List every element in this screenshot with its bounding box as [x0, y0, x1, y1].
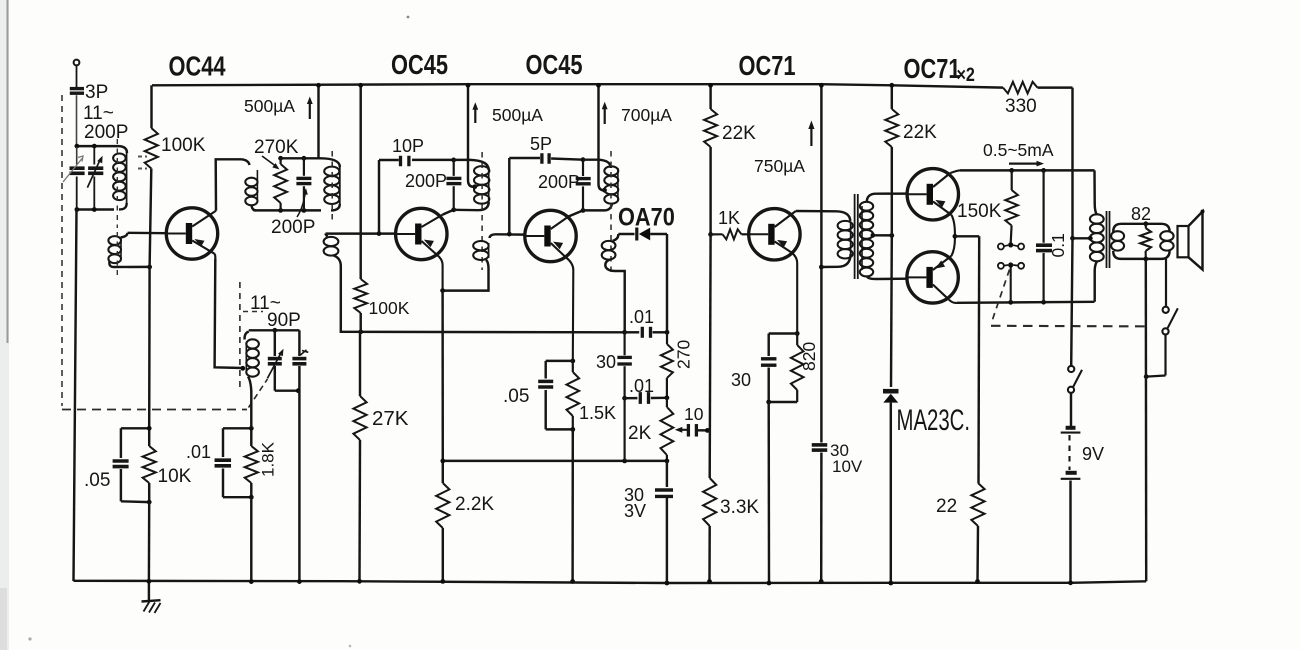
resistor R16 22 [971, 483, 984, 584]
capacitor C 30b [761, 334, 797, 403]
wire volume top to bus [623, 398, 625, 461]
inductor T3 secondary [602, 234, 625, 332]
svg-text:OA70: OA70 [618, 203, 675, 231]
wire switch gang link (dashed) [991, 270, 1150, 327]
transistor Q3 OC45 [525, 210, 576, 361]
capacitor C .01a [215, 428, 252, 497]
wire base Q2 from T1 [326, 231, 396, 236]
variable capacitor VC2 antenna [87, 147, 103, 209]
wire top supply rail [152, 84, 1003, 87]
label 22 [936, 496, 957, 517]
svg-text:200P: 200P [84, 122, 128, 143]
diode MA23C varistor [883, 235, 899, 585]
wire osc core (dashed) [239, 282, 241, 391]
label 330 [1005, 96, 1037, 117]
svg-text:200P: 200P [405, 171, 447, 191]
wire AVC bus [341, 266, 625, 334]
wire base Q6 lower [876, 277, 907, 280]
label 0.1 [1048, 233, 1068, 257]
label .01c [629, 376, 654, 396]
capacitor C .01b [622, 327, 669, 338]
label 200Pa [271, 188, 315, 238]
inductor T4 secondary [860, 194, 876, 279]
svg-text:11~: 11~ [83, 103, 114, 124]
resistor R12 1K [711, 229, 749, 239]
antenna terminal [74, 60, 80, 87]
label 82 [1131, 204, 1151, 224]
variable capacitor VC1 antenna [63, 147, 85, 209]
label 270K [254, 137, 299, 170]
label 9V [1082, 444, 1104, 464]
wire upper collector rail [960, 168, 1095, 173]
wire T3 B+ feed [596, 83, 607, 193]
label 5P [530, 134, 552, 154]
transformer T4 core [855, 194, 858, 279]
node coupling-bias junction [147, 265, 152, 270]
wire gang link (dashed) [62, 95, 268, 410]
wire T1 top [278, 156, 321, 161]
svg-text:×2: ×2 [957, 64, 976, 86]
variable capacitor VC3 osc [267, 330, 283, 390]
svg-text:3P: 3P [85, 82, 108, 103]
wire osc tank bottom [275, 388, 302, 584]
inductor T1 tank [321, 158, 340, 210]
svg-text:OC45: OC45 [391, 49, 448, 80]
svg-text:10P: 10P [392, 136, 424, 156]
resistor R5 100K [354, 83, 367, 332]
resistor R17 150K [1005, 170, 1018, 242]
label 150K [957, 201, 1002, 222]
switch S2 on-off [1068, 366, 1082, 426]
transformer T5 core [1107, 211, 1110, 268]
svg-text:700µA: 700µA [621, 105, 672, 125]
resistor R6 27K [353, 332, 366, 584]
resistor R18 330 [1003, 82, 1073, 94]
capacitor C 200Pa [296, 158, 311, 210]
switch S3 speaker [1144, 259, 1178, 379]
label 22K a [722, 123, 756, 144]
svg-text:22: 22 [936, 496, 957, 517]
svg-text:90P: 90P [267, 310, 301, 331]
resistor R10 1.5K [567, 361, 580, 584]
svg-text:0.5~5mA: 0.5~5mA [983, 140, 1054, 160]
wire battery feed [1070, 88, 1075, 366]
resistor R11 22K [704, 83, 717, 237]
svg-text:OC45: OC45 [526, 49, 583, 80]
resistor R7 2.2K [436, 291, 449, 584]
label OC44 [169, 51, 226, 82]
svg-text:200P: 200P [538, 172, 580, 192]
coupling coil L1b [108, 233, 149, 267]
label 10K [158, 466, 192, 487]
wire osc tank top [249, 328, 300, 333]
svg-text:150K: 150K [957, 201, 1002, 222]
svg-text:27K: 27K [372, 407, 409, 430]
svg-text:500µA: 500µA [244, 96, 295, 116]
wire antenna return [74, 210, 77, 582]
svg-text:3V: 3V [624, 501, 646, 521]
capacitor 3P [70, 89, 84, 144]
variable capacitor VC4 osc trimmer [292, 330, 308, 390]
wire rod core lower (dashed) [116, 232, 118, 275]
svg-text:30: 30 [731, 370, 751, 390]
svg-text:330: 330 [1005, 96, 1037, 117]
capacitor C 10 [688, 424, 709, 437]
wire Q2 collector junction [443, 207, 457, 214]
transistor Q6 OC71 lower [907, 236, 958, 303]
resistor R1 100K [145, 85, 158, 428]
label 11~ 90P [243, 293, 301, 331]
wire base Q3 [495, 232, 525, 237]
wire tuning gang top [75, 144, 120, 149]
wire B+ branch OC71 [819, 83, 824, 584]
label .05 [84, 470, 110, 491]
wire rod core (dashed) [116, 139, 118, 228]
capacitor C 200Pc [576, 157, 591, 210]
potentiometer R9 2K [661, 398, 690, 461]
svg-text:22K: 22K [903, 122, 937, 143]
svg-text:10K: 10K [158, 466, 192, 487]
svg-text:1.8K: 1.8K [259, 441, 278, 477]
resistor R8 270 [661, 332, 673, 398]
capacitor C 30a [617, 332, 632, 398]
switch S1 tone upper [998, 242, 1024, 249]
resistor R13 820 [791, 334, 804, 403]
label 11~200P [83, 103, 128, 143]
svg-text:82: 82 [1131, 204, 1151, 224]
wire speaker return [1145, 259, 1148, 581]
inductor T1 secondary [324, 234, 341, 266]
svg-text:820: 820 [799, 342, 819, 371]
label 820 [799, 342, 819, 371]
svg-text:270: 270 [674, 340, 694, 369]
svg-text:.05: .05 [84, 470, 110, 491]
svg-text:.05: .05 [503, 386, 529, 407]
wire Q4 collector to T4 [796, 210, 836, 213]
svg-text:OC44: OC44 [169, 51, 226, 82]
resistor R4 270K [274, 158, 287, 210]
label 200Pc [538, 172, 580, 192]
label .01a [186, 442, 211, 462]
label current 500uA b [472, 102, 543, 125]
svg-text:30: 30 [596, 352, 616, 372]
label 200Pb [405, 171, 447, 191]
label .01b [629, 307, 654, 327]
svg-text:100K: 100K [369, 298, 410, 318]
wire T1 bottom [254, 208, 322, 213]
inductor T2 primary [454, 160, 490, 210]
diode D1 OA70 [618, 228, 667, 333]
capacitor C 10P [379, 156, 454, 234]
wire Q1 emitter to osc tap [215, 259, 246, 371]
ferrite rod antenna coil L1 [113, 146, 127, 209]
resistor R19 82 [1140, 221, 1151, 261]
svg-text:1.5K: 1.5K [579, 403, 616, 423]
speaker LS1 [1174, 210, 1205, 270]
wire base Q1 [128, 232, 167, 235]
label 1.5K [579, 403, 616, 423]
resistor R15 22K [885, 83, 898, 236]
svg-text:22K: 22K [722, 123, 756, 144]
svg-text:750µA: 750µA [754, 156, 805, 176]
inductor T1 primary [242, 159, 258, 210]
inductor T5 secondary [1111, 224, 1174, 259]
label current 700uA [602, 102, 672, 125]
battery BT1 9V [1061, 428, 1081, 585]
svg-text:3.3K: 3.3K [720, 497, 759, 518]
svg-text:100K: 100K [161, 135, 206, 156]
svg-text:500µA: 500µA [492, 105, 543, 125]
label 1K [718, 208, 740, 228]
capacitor C 30 3V [655, 461, 673, 585]
label .05b [503, 386, 529, 407]
label 2.2K [455, 494, 494, 515]
resistor R2 10K [143, 426, 156, 584]
svg-text:270K: 270K [254, 137, 299, 158]
wire T5 centre tap [1073, 236, 1093, 241]
wire Q1 collector to T1 [216, 159, 242, 211]
label OC71 [739, 50, 796, 81]
capacitor C 200Pb [446, 158, 461, 210]
ground [142, 582, 161, 614]
label 100K R5 [369, 298, 410, 318]
wire T1 B+ feed [316, 83, 321, 158]
label 27K [372, 407, 409, 430]
label OC71 x2 [904, 53, 976, 85]
label 1.8K [259, 441, 278, 477]
resistor R14 3.3K [703, 234, 716, 583]
label current 500uA a [244, 96, 313, 119]
svg-text:10: 10 [684, 404, 704, 424]
wire T4 centre tap [871, 233, 895, 238]
svg-text:2.2K: 2.2K [455, 494, 494, 515]
inductor T4 primary [821, 211, 852, 267]
svg-text:MA23C.: MA23C. [897, 404, 970, 437]
label 30a [596, 352, 616, 372]
label MA23C [897, 404, 970, 437]
inductor T3 primary [583, 160, 618, 211]
inductor T5 primary [1090, 170, 1104, 301]
wire lower collector rail [957, 300, 1095, 305]
transistor Q5 OC71 upper [907, 169, 960, 237]
inductor T2 secondary [440, 234, 495, 293]
wire T2 B+ feed [466, 83, 478, 189]
wire base Q5 upper [876, 192, 907, 195]
label OC45 a [391, 49, 448, 80]
svg-text:OC71: OC71 [904, 53, 961, 84]
wire bottom ground rail [74, 581, 1147, 583]
transistor Q2 OC45 [396, 208, 447, 290]
resistor R3 1.8K [245, 426, 258, 584]
wire common emitters to 22 [953, 234, 980, 483]
node Q4 emitter junction [795, 331, 800, 336]
label 10P [392, 136, 424, 156]
capacitor C .05 [113, 428, 150, 502]
capacitor C .01c [622, 392, 669, 404]
transistor Q1 OC44 [166, 208, 217, 259]
label current 750uA [754, 121, 815, 177]
label 30 10V [830, 441, 863, 476]
transistor Q4 OC71 [749, 209, 800, 334]
label 10 [684, 404, 704, 424]
svg-text:1K: 1K [718, 208, 740, 228]
switch S1 tone lower [998, 262, 1024, 302]
svg-text:.01: .01 [186, 442, 211, 462]
svg-text:.01: .01 [629, 376, 654, 396]
svg-text:9V: 9V [1082, 444, 1104, 464]
wire T3 core (dashed) [610, 151, 612, 272]
wire T2 core (dashed) [481, 152, 483, 270]
capacitor C 0.1 [1036, 170, 1052, 302]
label 2K [628, 423, 652, 444]
wire tuning gang bottom [75, 207, 115, 212]
svg-text:0.1: 0.1 [1048, 233, 1068, 257]
capacitor C 5P [509, 153, 583, 234]
label 22K b [903, 122, 937, 143]
label OA70 [618, 203, 675, 231]
svg-text:5P: 5P [530, 134, 552, 154]
label 100K R1 [161, 135, 206, 156]
svg-text:200P: 200P [271, 217, 315, 238]
label 30 3V [624, 485, 646, 521]
wire detector return bus [440, 459, 669, 464]
capacitor C .05b [538, 359, 575, 430]
label 3P [85, 82, 108, 103]
label current 0.5-5mA [983, 140, 1054, 167]
label OC45 b [526, 49, 583, 80]
svg-text:2K: 2K [628, 423, 652, 444]
label 270 [674, 340, 694, 369]
capacitor C 30 10V [812, 445, 828, 450]
label 30b [731, 370, 751, 390]
label 3.3K [720, 497, 759, 518]
svg-text:.01: .01 [629, 307, 654, 327]
oscillator coil L2 [245, 332, 259, 429]
wire T1 core (dashed) [331, 151, 333, 224]
wire Q3 collector junction [569, 208, 586, 217]
svg-text:OC71: OC71 [739, 50, 796, 81]
wire emitter network to ground [766, 400, 797, 586]
svg-text:10V: 10V [832, 457, 863, 476]
